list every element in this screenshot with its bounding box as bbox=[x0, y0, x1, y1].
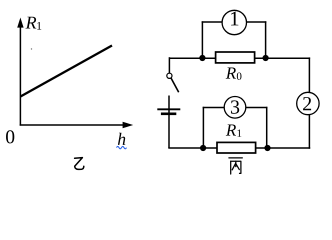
wire: right branch upper bbox=[308, 57, 310, 93]
battery cell bbox=[157, 109, 180, 114]
y-axis bbox=[17, 18, 23, 126]
wire: meter1 loop top right bbox=[247, 21, 267, 23]
wire: meter1 loop top left bbox=[202, 21, 223, 23]
caption 乙 bbox=[75, 158, 84, 170]
label R0 bbox=[226, 67, 242, 79]
meter 1 (ammeter) bbox=[222, 10, 246, 34]
wire: meter1 loop left vertical bbox=[201, 21, 203, 58]
label R1 (circuit) bbox=[226, 124, 242, 136]
wire: left branch middle bbox=[168, 96, 170, 149]
wavy underline under h bbox=[117, 146, 127, 148]
wire: top main bbox=[169, 57, 310, 59]
curve R1 vs h bbox=[21, 46, 113, 97]
wire: bottom main bbox=[168, 147, 310, 149]
wire: meter3 loop top right bbox=[246, 107, 268, 109]
meter 3 bbox=[224, 97, 246, 119]
label h (x-axis) bbox=[118, 133, 125, 145]
stray dot bbox=[31, 48, 32, 49]
node: top-right junction bbox=[263, 55, 269, 61]
wire: meter3 loop right vertical bbox=[266, 107, 268, 148]
node: bottom-left junction bbox=[200, 145, 206, 151]
meter 2 (voltmeter) bbox=[297, 92, 319, 114]
wire: right branch lower bbox=[308, 114, 310, 148]
wire: meter3 loop left vertical bbox=[202, 107, 204, 148]
resistor R1 bbox=[217, 142, 256, 153]
node: top-left junction bbox=[199, 55, 205, 61]
wire: left branch upper bbox=[168, 57, 170, 73]
wire: meter1 loop right vertical bbox=[265, 21, 267, 58]
switch S bbox=[167, 73, 179, 92]
label 0 (origin) bbox=[6, 130, 14, 143]
caption 丙 bbox=[229, 158, 242, 174]
wire: meter3 loop top left bbox=[203, 107, 225, 109]
node: bottom-right junction bbox=[264, 145, 270, 151]
resistor R0 bbox=[216, 52, 255, 63]
x-axis bbox=[20, 122, 134, 128]
label R1 (y-axis) bbox=[26, 17, 42, 30]
